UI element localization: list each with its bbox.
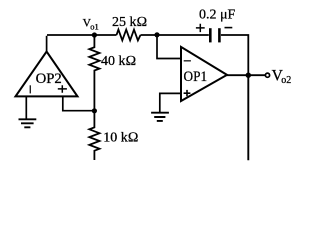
wire: junction down and right into OP1 inverting input [157, 35, 181, 59]
op-amp U1 (OP1) triangle pointing right [181, 47, 227, 101]
svg-text:o2: o2 [281, 75, 291, 86]
capacitor plus polarity mark [196, 24, 205, 32]
wire: top horizontal from OP2 output corner to capacitor left lead [47, 34, 209, 36]
ground (OP2 input) [19, 119, 37, 127]
node junction dot at OP2 plus input / resistor divider [92, 108, 97, 113]
terminal open circle Vo2 [265, 73, 269, 77]
capacitor C 0.2uF right plate [218, 28, 221, 42]
OP2 non-inverting input marker (plus) [58, 85, 67, 93]
node junction dot at feedback takeoff [154, 32, 159, 37]
capacitor C 0.2uF left plate [209, 28, 212, 42]
OP1 non-inverting input marker (plus) [184, 90, 191, 96]
ground (OP1 input) [151, 113, 169, 121]
svg-text:10 kΩ: 10 kΩ [103, 131, 138, 146]
wire: OP2 inverting input down to ground [25, 96, 27, 119]
svg-text:OP2: OP2 [36, 71, 62, 87]
resistor R 10k vertical with leads [89, 111, 99, 160]
wire: OP2 non-inverting input down and right to node [63, 96, 95, 110]
resistor R 40k vertical with leads [89, 35, 99, 111]
svg-text:0.2 μF: 0.2 μF [199, 8, 236, 23]
wire: OP1 output to terminal [227, 74, 266, 76]
OP2 inverting input marker (rotated minus) [29, 85, 31, 93]
wire: output node down [247, 75, 249, 160]
op-amp U2 (OP2) triangle pointing up [16, 52, 78, 97]
resistor R 25k horizontal zigzag [117, 30, 141, 41]
capacitor minus polarity mark [225, 27, 233, 29]
wire: capacitor right plate to corner and down to output node [221, 35, 248, 75]
node output junction dot [246, 73, 251, 78]
wire: vertical from top wire down to OP2 apex [46, 36, 48, 52]
OP1 inverting input marker (minus) [184, 60, 191, 62]
node Vo1 junction dot [92, 32, 97, 37]
svg-text:25 kΩ: 25 kΩ [112, 15, 147, 30]
wire: OP1 non-inverting input to ground [160, 93, 181, 112]
svg-text:OP1: OP1 [184, 69, 208, 85]
svg-text:40 kΩ: 40 kΩ [101, 54, 136, 69]
svg-text:o1: o1 [90, 21, 99, 31]
